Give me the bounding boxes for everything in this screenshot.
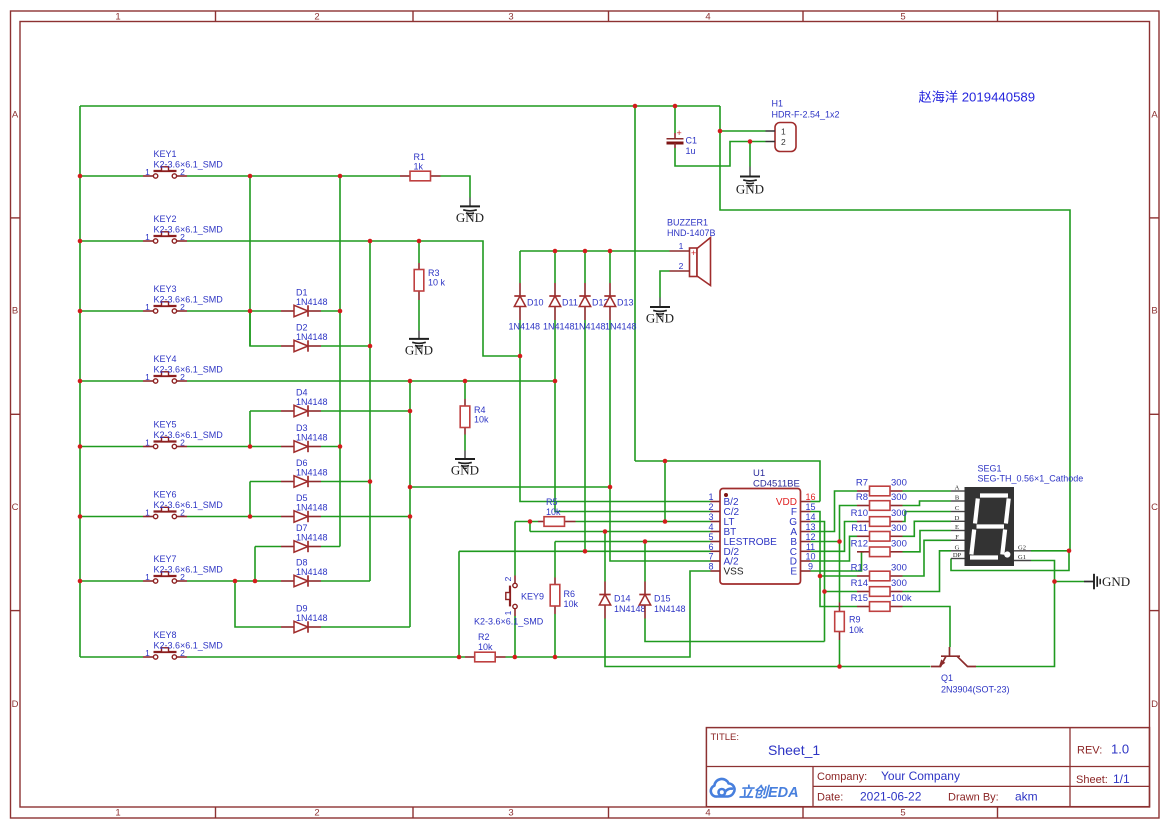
wire U1 pin4 row [530, 531, 711, 533]
wire U1 pin12 to junction [811, 541, 840, 543]
svg-text:Sheet_1: Sheet_1 [768, 742, 820, 758]
resistor R9 [839, 603, 841, 612]
svg-text:E: E [955, 524, 959, 531]
wire R14 right to segment G [903, 551, 952, 592]
svg-text:HDR-F-2.54_1x2: HDR-F-2.54_1x2 [772, 110, 840, 120]
svg-text:2: 2 [314, 808, 319, 819]
svg-text:Drawn By:: Drawn By: [948, 792, 999, 804]
svg-text:300: 300 [891, 578, 907, 589]
svg-text:10k: 10k [546, 507, 561, 517]
junction at (635,106) [633, 104, 638, 109]
svg-text:SEG-TH_0.56×1_Cathode: SEG-TH_0.56×1_Cathode [978, 474, 1084, 484]
wire D13 riser to U1 pin7 [610, 320, 711, 561]
U1 pin 2 C/2 [711, 511, 721, 513]
svg-text:D3: D3 [296, 423, 308, 433]
svg-text:1k: 1k [414, 162, 424, 172]
column ticks bottom [215, 807, 217, 818]
svg-text:6: 6 [708, 542, 713, 552]
wire D13 top riser [609, 251, 611, 283]
wire buzzer pin2 to GND [660, 271, 670, 298]
wire D8 right to x370 riser [321, 580, 370, 582]
svg-text:KEY8: KEY8 [154, 630, 177, 640]
junction at (370,241) [368, 239, 373, 244]
wire R10 right to segment C [903, 512, 952, 522]
resistor R10 [857, 521, 870, 523]
svg-text:8: 8 [708, 562, 713, 572]
wire KEY5 row to D3 [187, 446, 281, 448]
wire VDD rail y461 [635, 461, 820, 502]
svg-text:Company:: Company: [817, 771, 867, 783]
junction at (665,461) [663, 459, 668, 464]
junction at (605,531.5) [603, 529, 608, 534]
svg-text:A: A [955, 485, 960, 492]
svg-text:1/1: 1/1 [1113, 772, 1130, 786]
wire D14 bottom to Q1 row [605, 619, 931, 667]
svg-text:D8: D8 [296, 558, 308, 568]
svg-text:7: 7 [708, 552, 713, 562]
svg-text:Your Company: Your Company [881, 769, 960, 783]
svg-text:D11: D11 [562, 298, 578, 308]
svg-text:100k: 100k [891, 593, 912, 604]
wire C1 riser top [674, 106, 676, 133]
SEG1 pin G2 [1014, 550, 1031, 552]
buzzer BUZZER1 [690, 248, 698, 277]
svg-text:BUZZER1: BUZZER1 [667, 218, 708, 228]
svg-text:F: F [955, 534, 959, 541]
svg-text:GND: GND [456, 210, 484, 225]
svg-text:300: 300 [891, 538, 907, 549]
svg-text:D9: D9 [296, 604, 308, 614]
row ticks left [11, 217, 21, 219]
SEG1 pin B [951, 500, 965, 502]
switch KEY4 [143, 380, 153, 382]
junction at (720,131) [718, 129, 723, 134]
wire R3 bottom to GND [418, 300, 420, 331]
svg-text:GND: GND [405, 343, 433, 358]
svg-text:GND: GND [646, 311, 674, 326]
seven-segment display SEG1 body [965, 487, 1015, 566]
junction at (824.5,591.5) [822, 589, 827, 594]
U1 pin 14 G [801, 521, 811, 523]
wire R13 row from pin15 riser [820, 575, 857, 577]
wire x720 long run to G2 [720, 131, 1070, 551]
resistor R13 [857, 575, 870, 577]
svg-text:立创EDA: 立创EDA [739, 784, 799, 801]
op-amp U1 CD4511BE body [720, 489, 801, 585]
junction at (839.5,666.5) [837, 664, 842, 669]
junction at (645,541.5) [643, 539, 648, 544]
wire D15 riser from pin5 row [644, 542, 646, 582]
LCEDA logo cloud [711, 779, 735, 797]
svg-text:4: 4 [705, 808, 710, 819]
junction at (340,311) [338, 309, 343, 314]
junction at (585,551.3) [583, 549, 588, 554]
wire D6 left riser [250, 481, 281, 483]
svg-text:1N4148: 1N4148 [509, 322, 541, 332]
svg-text:10k: 10k [478, 642, 493, 652]
wire horizontal x410 to D13 riser [410, 486, 610, 488]
wire R6 bottom to KEY8 row [554, 614, 556, 657]
junction at (514.8,657) [513, 655, 518, 660]
svg-text:HND-1407B: HND-1407B [667, 228, 716, 238]
junction at (555,251) [553, 249, 558, 254]
svg-text:KEY7: KEY7 [154, 554, 177, 564]
wire D14 riser from pin4 row [604, 532, 606, 582]
wire KEY7 row left [80, 580, 143, 582]
junction at (80,516.5) [78, 514, 83, 519]
resistor R7 [857, 490, 870, 492]
junction at (665,521.5) [663, 519, 668, 524]
U1 pin 12 B [801, 541, 811, 543]
title block logo cell divider [812, 767, 814, 807]
junction at (610,251) [608, 249, 613, 254]
junction at (80,241) [78, 239, 83, 244]
transistor Q1 [931, 647, 976, 667]
wire C1 bottom loop to H1 pin2 [675, 142, 766, 167]
column ticks top [215, 11, 217, 22]
svg-text:10k: 10k [564, 599, 579, 609]
svg-text:1: 1 [145, 232, 150, 242]
diode D15 [644, 582, 646, 595]
wire U1 pin16 lead join [811, 501, 821, 503]
wire R14 row from pin14 riser [825, 591, 858, 593]
svg-text:300: 300 [891, 563, 907, 574]
svg-text:1: 1 [145, 302, 150, 312]
svg-text:1: 1 [679, 241, 684, 251]
svg-text:C1: C1 [686, 136, 698, 146]
junction at (1054.5,581.5) [1052, 579, 1057, 584]
SEG1 pin DP [951, 558, 965, 560]
svg-text:R13: R13 [851, 563, 868, 574]
svg-text:D: D [12, 699, 19, 710]
SEG1 pin D [951, 520, 965, 522]
svg-text:2: 2 [503, 576, 513, 581]
switch KEY1 [143, 175, 153, 177]
wire riser x250 KEY1-D2 [249, 176, 251, 346]
svg-text:1: 1 [145, 508, 150, 518]
junction at (555,381) [553, 379, 558, 384]
diode D14 [604, 582, 606, 595]
svg-text:D4: D4 [296, 388, 308, 398]
svg-text:R2: R2 [478, 632, 490, 642]
switch KEY9 vertical [514, 576, 516, 584]
SEG1 pin A [951, 490, 965, 492]
diode D8 [281, 580, 294, 582]
wire KEY8 row left [80, 656, 143, 658]
U1 pin 8 VSS [711, 570, 721, 572]
junction at (839.5,541.5) [837, 539, 842, 544]
wire KEY2 row left [80, 240, 143, 242]
svg-text:3: 3 [708, 512, 713, 522]
diode D1 [281, 310, 294, 312]
svg-text:TITLE:: TITLE: [711, 732, 740, 743]
svg-text:5: 5 [708, 532, 713, 542]
svg-text:K2-3.6×6.1_SMD: K2-3.6×6.1_SMD [154, 430, 224, 440]
svg-text:R8: R8 [856, 492, 868, 503]
wire pin12 junction up to R8 [840, 506, 858, 542]
junction at (820,576) [818, 574, 823, 579]
wire D10 riser to U1 pin1 [520, 320, 711, 502]
wire KEY6 row left [80, 516, 143, 518]
wire U1 pin6 row [459, 550, 711, 552]
wire D2 to x370 riser [321, 345, 370, 347]
switch KEY8 [143, 656, 153, 658]
svg-text:SEG1: SEG1 [978, 464, 1002, 474]
wire R13 right to segment F [903, 540, 952, 576]
svg-text:5: 5 [900, 808, 905, 819]
diode D7 [281, 546, 294, 548]
switch KEY6 [143, 516, 153, 518]
svg-text:REV:: REV: [1077, 745, 1102, 757]
svg-text:D10: D10 [527, 298, 544, 308]
wire D10 top riser [519, 251, 521, 283]
svg-text:1N4148: 1N4148 [543, 322, 575, 332]
ground under H1 [749, 167, 751, 177]
wire KEY2 row to D10 riser [187, 241, 520, 356]
wire KEY1 row left [80, 175, 143, 177]
wire KEY3 row to D1 [187, 310, 281, 312]
svg-text:赵海洋 2019440589: 赵海洋 2019440589 [919, 90, 1036, 105]
svg-text:B: B [955, 495, 960, 502]
wire R4 bottom to GND [464, 435, 466, 451]
svg-text:2: 2 [708, 502, 713, 512]
wire U1 pin14 riser to R14 D15 [811, 522, 825, 642]
svg-text:+: + [677, 128, 682, 138]
wire top horizontal rail [80, 105, 720, 107]
wire KEY7 junction down to D9 [235, 581, 281, 627]
svg-text:1: 1 [145, 372, 150, 382]
svg-text:C: C [955, 505, 959, 512]
svg-text:1N4148: 1N4148 [296, 533, 328, 543]
svg-text:R3: R3 [428, 268, 440, 278]
junction at (370,481.5) [368, 479, 373, 484]
U1 pin 9 E [801, 570, 811, 572]
svg-text:2: 2 [781, 137, 786, 147]
wire G1 node to GND symbol [1055, 581, 1085, 583]
junction at (80,446.5) [78, 444, 83, 449]
svg-text:1.0: 1.0 [1111, 742, 1129, 757]
resistor R5 [538, 521, 544, 523]
SEG1 decimal point [1004, 551, 1010, 557]
svg-text:K2-3.6×6.1_SMD: K2-3.6×6.1_SMD [154, 500, 224, 510]
svg-text:KEY6: KEY6 [154, 490, 177, 500]
wire D12 top riser [584, 251, 586, 283]
wire R5 left to KEY9 junction [515, 521, 538, 523]
junction at (255,581) [253, 579, 258, 584]
svg-text:Q1: Q1 [941, 673, 953, 683]
junction at (520,356) [518, 354, 523, 359]
U1 pin 15 F [801, 511, 811, 513]
wire G1 to GND and Q1 collector [976, 561, 1055, 667]
wire D1 to x340 riser [321, 310, 340, 312]
svg-text:1N4148: 1N4148 [296, 503, 328, 513]
wire left bus vertical [79, 106, 81, 657]
svg-text:1N4148: 1N4148 [296, 468, 328, 478]
wire U1 pin9 riser to R12 [811, 552, 865, 571]
junction at (340,446.5) [338, 444, 343, 449]
junction at (410,487) [408, 485, 413, 490]
diode D6 [281, 481, 294, 483]
svg-text:VSS: VSS [724, 567, 744, 578]
svg-text:2: 2 [679, 261, 684, 271]
header H1 [775, 123, 796, 152]
svg-text:1N4148: 1N4148 [605, 322, 637, 332]
junction at (555,657) [553, 655, 558, 660]
U1 pin 1 B/2 [711, 501, 721, 503]
U1 pin 16 VDD [801, 501, 811, 503]
diode D3 [281, 446, 294, 448]
svg-text:K2-3.6×6.1_SMD: K2-3.6×6.1_SMD [154, 565, 224, 575]
wire riser x340 KEY1-D7 [339, 176, 341, 547]
junction at (410,381) [408, 379, 413, 384]
svg-text:+: + [691, 248, 696, 258]
wire G2 stub to node [1031, 550, 1069, 552]
U1 pin 13 A [801, 531, 811, 533]
diode D13 [609, 283, 611, 296]
resistor R8 [857, 505, 870, 507]
diode D2 [281, 345, 294, 347]
wire D11 riser to U1 pin2 [555, 320, 711, 512]
wire R8 right to segment B [903, 501, 952, 506]
svg-text:G2: G2 [1018, 544, 1026, 551]
svg-text:KEY5: KEY5 [154, 420, 177, 430]
svg-text:R7: R7 [856, 478, 868, 489]
svg-text:GND: GND [1102, 574, 1130, 589]
wire KEY7 row to D8 [187, 580, 281, 582]
svg-text:1N4148: 1N4148 [296, 297, 328, 307]
svg-text:13: 13 [805, 522, 815, 532]
row ticks right [1150, 217, 1160, 219]
wire LT riser x665 [664, 461, 666, 522]
svg-text:10 k: 10 k [428, 278, 446, 288]
svg-text:14: 14 [805, 512, 815, 522]
wire R5 junction down to pin4 row [529, 522, 531, 532]
svg-text:300: 300 [891, 478, 907, 489]
svg-text:D2: D2 [296, 323, 308, 333]
capacitor C1 [674, 133, 676, 138]
wire R4 riser top [464, 381, 466, 399]
svg-text:D7: D7 [296, 523, 308, 533]
svg-text:1: 1 [115, 808, 120, 819]
wire D4 left riser [250, 410, 281, 412]
svg-text:12: 12 [805, 532, 815, 542]
wire R7 right to segment A [903, 490, 952, 492]
junction at (419,241) [417, 239, 422, 244]
svg-text:9: 9 [808, 562, 813, 572]
wire D3 to x340 riser [321, 446, 340, 448]
svg-text:C: C [12, 502, 19, 513]
resistor R11 [857, 535, 870, 537]
svg-text:D13: D13 [617, 298, 634, 308]
svg-text:CD4511BE: CD4511BE [753, 479, 800, 490]
svg-text:E: E [790, 567, 797, 578]
junction at (80,381) [78, 379, 83, 384]
svg-text:1N4148: 1N4148 [296, 433, 328, 443]
junction at (675,106) [673, 104, 678, 109]
U1 pin 3 LT [711, 521, 721, 523]
svg-text:K2-3.6×6.1_SMD: K2-3.6×6.1_SMD [154, 295, 224, 305]
svg-text:10k: 10k [474, 415, 489, 425]
diode D11 [554, 283, 556, 296]
wire pin12 junction down to R9 [839, 542, 841, 603]
svg-text:C: C [1151, 502, 1158, 513]
wire D9 right to x410 riser [321, 626, 410, 628]
svg-text:11: 11 [806, 542, 815, 552]
svg-text:R14: R14 [851, 578, 868, 589]
wire R2 to VSS riser [506, 571, 711, 657]
ground right of SEG1 [1084, 581, 1094, 583]
wire KEY3 junction down to D2 [250, 311, 281, 346]
junction at (410,516.5) [408, 514, 413, 519]
svg-text:R1: R1 [414, 152, 426, 162]
svg-text:1N4148: 1N4148 [296, 613, 328, 623]
switch KEY5 [143, 446, 153, 448]
svg-text:300: 300 [891, 492, 907, 503]
ground under R1 [469, 198, 471, 207]
junction at (80,176) [78, 174, 83, 179]
svg-text:K2-3.6×6.1_SMD: K2-3.6×6.1_SMD [154, 365, 224, 375]
wire R6 riser from pin5 row [554, 542, 556, 578]
SEG1 pin G1 [1014, 560, 1031, 562]
svg-text:300: 300 [891, 523, 907, 534]
svg-text:1N4148: 1N4148 [296, 332, 328, 342]
wire D7 right to x340 riser [321, 546, 340, 548]
svg-text:4: 4 [705, 12, 710, 23]
title block title row divider [706, 766, 1149, 768]
wire D5 right to x410 riser [321, 516, 410, 518]
U1 pin 7 A/2 [711, 560, 721, 562]
svg-text:10: 10 [805, 552, 815, 562]
junction at (250,311) [248, 309, 253, 314]
U1 pin 6 D/2 [711, 550, 721, 552]
ground under R4 [464, 451, 466, 460]
svg-text:B: B [12, 306, 18, 317]
svg-text:1: 1 [115, 12, 120, 23]
svg-text:KEY3: KEY3 [154, 284, 177, 294]
svg-text:R10: R10 [851, 508, 868, 519]
svg-text:1: 1 [145, 438, 150, 448]
SEG1 pin F [951, 539, 965, 541]
svg-text:R4: R4 [474, 405, 486, 415]
junction at (459,657) [457, 655, 462, 660]
wire KEY9 riser top [514, 522, 516, 576]
wire D15 bottom to R14 riser [645, 619, 825, 642]
svg-text:1N4148: 1N4148 [654, 604, 686, 614]
wire D12 riser to U1 pin6 [584, 320, 586, 551]
svg-text:1: 1 [145, 167, 150, 177]
junction at (250,446.5) [248, 444, 253, 449]
resistor R12 [857, 551, 870, 553]
SEG1 pin E [951, 530, 965, 532]
resistor R2 [465, 656, 475, 658]
junction at (80,581) [78, 579, 83, 584]
svg-text:2N3904(SOT-23): 2N3904(SOT-23) [941, 685, 1010, 695]
title block outline [706, 728, 1149, 807]
wire R9 bottom to Q1 row [839, 640, 841, 667]
wire x720 H1 pin1 riser [720, 106, 766, 131]
junction at (250,516.5) [248, 514, 253, 519]
svg-text:A: A [12, 110, 19, 121]
junction at (585,251) [583, 249, 588, 254]
junction at (340,176) [338, 174, 343, 179]
svg-text:G1: G1 [1018, 554, 1026, 561]
svg-text:KEY4: KEY4 [154, 354, 177, 364]
svg-text:3: 3 [508, 12, 513, 23]
wire D11 top riser [554, 251, 556, 283]
svg-text:D5: D5 [296, 493, 308, 503]
svg-text:R15: R15 [851, 593, 868, 604]
svg-text:2: 2 [314, 12, 319, 23]
